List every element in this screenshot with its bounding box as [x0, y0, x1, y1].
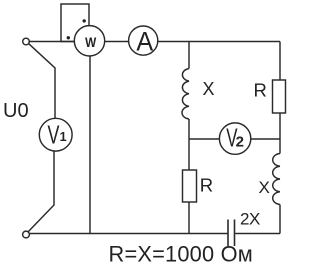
- wire middle branch top: [188, 42, 190, 69]
- wire right branch lower: [279, 205, 281, 234]
- ammeter A: [129, 26, 158, 55]
- wire V1 branch upper diagonal: [29, 44, 55, 119]
- inductor X (right): [273, 154, 280, 205]
- wire V2 horizontal: [189, 138, 280, 140]
- svg-text:A: A: [136, 26, 153, 57]
- svg-text:W: W: [85, 34, 97, 50]
- polarity dot (current coil): [67, 36, 70, 39]
- wire wattmeter voltage lead: [89, 56, 91, 234]
- wattmeter voltage-coil box: [61, 4, 89, 42]
- wire right branch middle: [279, 113, 281, 154]
- wire top main: [30, 41, 281, 43]
- svg-text:R: R: [200, 175, 213, 196]
- svg-text:R: R: [254, 80, 267, 101]
- svg-text:U0: U0: [3, 100, 29, 122]
- svg-text:1: 1: [60, 130, 67, 144]
- wire bottom left: [29, 233, 228, 235]
- voltmeter V1: [39, 118, 72, 151]
- svg-text:X: X: [259, 178, 270, 197]
- svg-text:V: V: [48, 120, 60, 149]
- svg-text:2: 2: [236, 133, 244, 150]
- terminal bottom: [23, 231, 30, 238]
- wire middle branch mid: [188, 119, 190, 170]
- capacitor 2X: [228, 220, 235, 247]
- wire V1 branch lower diagonal: [28, 151, 54, 232]
- svg-text:X: X: [203, 79, 215, 99]
- terminal top: [23, 38, 30, 45]
- wire right branch upper: [279, 42, 281, 81]
- svg-text:R=X=1000 Ом: R=X=1000 Ом: [109, 242, 253, 267]
- wire bottom right: [235, 233, 280, 235]
- polarity dot (voltage coil): [83, 19, 86, 22]
- resistor R (middle): [183, 170, 197, 202]
- resistor R (right): [273, 80, 286, 113]
- voltmeter V2: [219, 123, 250, 154]
- svg-text:2X: 2X: [240, 210, 260, 229]
- inductor X (middle): [182, 69, 189, 120]
- wire middle branch bottom: [188, 202, 190, 234]
- wattmeter W: [74, 26, 104, 56]
